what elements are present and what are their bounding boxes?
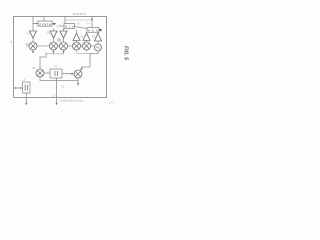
box U3 — [87, 28, 99, 33]
wire through A6 down to O1 — [97, 41, 99, 44]
F2 output down arrow through border — [25, 93, 27, 104]
box U1 synthesizer — [38, 21, 52, 26]
svg-text:FIG. 5: FIG. 5 — [122, 46, 128, 60]
wire vertical feed to A1 — [32, 17, 34, 32]
svg-text:70: 70 — [54, 65, 57, 69]
wire M5 to A5 — [86, 41, 88, 43]
wire below M2 step to M7 — [40, 53, 46, 70]
bus collecting M2 M3 outputs — [46, 53, 64, 55]
svg-text:41: 41 — [61, 85, 64, 89]
mixer M7 — [36, 69, 44, 77]
bus collecting M4 M5 outputs — [77, 53, 91, 55]
amp A4 (up) — [73, 33, 80, 41]
amp A6 (up) — [95, 33, 102, 41]
M8 output arrow down — [77, 78, 79, 85]
wire M7 down and along to M8 bottom — [40, 77, 78, 81]
amp A5 (up) — [83, 33, 90, 41]
stub above A4 — [76, 30, 78, 33]
mixer M4 — [73, 42, 81, 50]
M5 output arrow down — [86, 50, 88, 53]
F1 output down arrow through border — [56, 78, 58, 104]
wire A1 to M1 — [32, 38, 34, 42]
svg-text:56: 56 — [26, 42, 29, 46]
svg-text:64: 64 — [87, 23, 90, 26]
double arrow from border to F2 — [14, 87, 23, 89]
mixer M2 — [50, 42, 58, 50]
amp A2 (down) — [50, 31, 57, 38]
wire A3 to M3 — [63, 38, 65, 42]
stub above A5 — [86, 32, 88, 33]
oscillator O1 — [95, 44, 102, 51]
filter F2 — [23, 82, 31, 93]
svg-text:SYNTH: SYNTH — [39, 22, 51, 26]
wire U2 to U3 — [75, 27, 88, 29]
M2 output arrow down — [53, 50, 55, 53]
svg-text:8: 8 — [24, 78, 26, 82]
svg-text:p.14: p.14 — [109, 102, 114, 105]
amp A3 (down) — [60, 31, 67, 38]
amp A1 (down) — [30, 31, 37, 38]
M3 output arrow down — [63, 50, 65, 53]
mixer M8 — [74, 70, 82, 78]
wire vertical feed to box U2 — [64, 17, 66, 25]
wire vertical to box U3 with up arrow — [91, 17, 93, 28]
feed stub A3 — [63, 29, 65, 32]
svg-text:54: 54 — [27, 32, 30, 36]
svg-text:21 Multi-Std Sub-sys: 21 Multi-Std Sub-sys — [59, 99, 84, 103]
svg-text:57: 57 — [57, 25, 60, 29]
arrow out of U3 right — [99, 29, 102, 31]
mixer M5 — [83, 42, 91, 50]
svg-text:DIV: DIV — [65, 25, 74, 29]
M1 output arrow down — [32, 50, 34, 53]
svg-text:58 59 60 61: 58 59 60 61 — [73, 12, 87, 16]
svg-text:5: 5 — [10, 40, 12, 44]
svg-text:62: 62 — [81, 35, 84, 39]
svg-text:63: 63 — [92, 35, 95, 39]
svg-text:VCO: VCO — [88, 29, 99, 33]
arrow into M8 top right — [80, 68, 83, 71]
node bubble between A2 A3 — [58, 39, 61, 42]
svg-text:x2: x2 — [77, 23, 80, 26]
svg-text:66: 66 — [33, 66, 36, 70]
M4 output arrow down — [76, 50, 78, 53]
wire M4 to A4 — [76, 41, 78, 43]
wire vertical feed to box U1 — [43, 17, 45, 22]
outer enclosure box (sub-system boundary) — [14, 17, 107, 98]
mixer M3 — [60, 42, 68, 50]
LO distribution line — [26, 45, 94, 47]
box U2 — [64, 24, 75, 29]
wire into U1 — [33, 23, 38, 25]
wire from O1 down — [82, 51, 99, 67]
filter F1 — [50, 69, 62, 78]
wire A2 to M2 — [53, 38, 55, 42]
mixer M1 — [29, 42, 37, 50]
wire F1 to M8 with arrow — [62, 73, 73, 75]
feed stub A2 — [53, 29, 55, 32]
wire horizontal bus y20 — [65, 19, 92, 21]
wire U1 output arrow — [52, 23, 56, 25]
wire into U2 — [59, 25, 64, 27]
wire M7 to F1 — [44, 72, 50, 74]
